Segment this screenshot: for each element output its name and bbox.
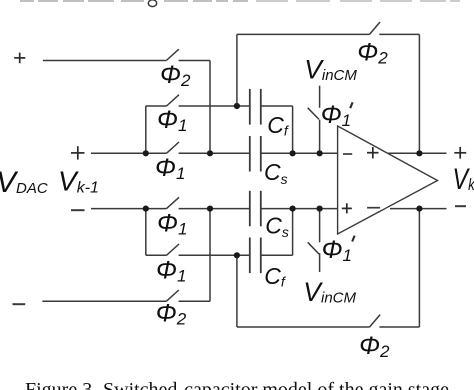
svg-text:Φ1: Φ1 <box>322 236 352 265</box>
op-amp input minus mark (top) <box>343 153 352 155</box>
svg-text:Cf: Cf <box>264 263 287 290</box>
wire top phi2 input left <box>43 60 166 62</box>
wire feedback top horizontal left <box>237 33 370 35</box>
wire bottom rail left <box>91 208 167 210</box>
switch PHI2 bottom input blade <box>166 290 179 301</box>
wire Vincm bottom lead <box>319 253 321 272</box>
wire phi1' bottom from rail <box>319 209 321 243</box>
wire feedback top right vertical <box>418 34 420 153</box>
wire vertical phi2 branch to top rail <box>209 61 211 154</box>
svg-text:VDAC: VDAC <box>0 166 48 199</box>
svg-text:Φ2: Φ2 <box>156 300 187 329</box>
wire phi1' top to rail <box>319 120 321 154</box>
svg-text:VinCM: VinCM <box>303 277 356 307</box>
svg-text:Cs: Cs <box>264 159 288 187</box>
capacitor Cs top plates <box>250 136 261 172</box>
switch PHI1' bottom blade <box>308 242 319 254</box>
svg-text:Switched-capacitor model of th: Switched-capacitor model of the gain sta… <box>103 379 449 390</box>
wire phi1 upper branch left <box>146 105 167 107</box>
wire Cf top branch down to rail <box>292 106 294 153</box>
caption Figure 3 (clipped at bottom) <box>25 379 449 390</box>
op-amp U1 triangle <box>338 126 438 234</box>
wire phi1 lower branch right <box>179 254 249 256</box>
op-amp output minus mark inside (bottom) <box>367 207 380 209</box>
wire bottom phi2 input left <box>42 300 166 302</box>
switch PHI1 lower branch blade <box>167 244 180 255</box>
wire feedback bottom right vertical <box>418 209 420 327</box>
plus mark top output <box>454 147 466 159</box>
wire Cf bottom right lead <box>261 254 293 256</box>
wire bottom rail mid <box>179 208 249 210</box>
node bottom rail / phi1 riser <box>143 206 149 212</box>
wire phi1 lower branch left <box>146 254 167 256</box>
op-amp input plus mark (bottom) <box>342 203 352 213</box>
wire bottom output <box>390 208 447 210</box>
wire vertical phi1 upper branch riser <box>145 106 147 153</box>
node phi1 upper branch / feedback <box>234 103 240 109</box>
svg-text:VinCM: VinCM <box>304 55 357 85</box>
node bottom rail / Cf branch <box>290 206 296 212</box>
wire top rail right of Cs <box>262 152 338 154</box>
wire vertical phi1 lower branch riser <box>145 209 147 256</box>
node + terminal (VDAC top) <box>14 53 25 64</box>
node top rail / Cf branch <box>290 150 296 156</box>
wire top rail mid <box>179 152 249 154</box>
node top output / feedback <box>416 150 422 156</box>
svg-text:Φ1: Φ1 <box>157 210 187 239</box>
node bottom output / feedback <box>416 206 422 212</box>
svg-text:Φ1: Φ1 <box>157 106 187 135</box>
wire Cf bottom branch up to rail <box>292 209 294 256</box>
wire Vincm top lead <box>319 86 321 108</box>
minus terminal (Vk-1 bottom) <box>71 209 85 211</box>
switch PHI1 upper branch blade <box>167 95 180 106</box>
svg-text:Cs: Cs <box>265 213 289 241</box>
svg-text:Φ1: Φ1 <box>321 101 351 130</box>
op-amp output plus mark inside (top) <box>367 147 379 158</box>
capacitor Cs bottom plates <box>250 191 261 227</box>
node top rail / phi1' <box>317 150 323 156</box>
capacitor Cf bottom plates <box>250 238 261 274</box>
node bottom rail / phi2 branch <box>207 206 213 212</box>
svg-text:Figure 3.: Figure 3. <box>25 379 97 390</box>
wire feedback bottom horizontal left <box>237 326 370 328</box>
descender g fragment of cut-off top text <box>148 0 156 7</box>
node top rail / phi1 riser <box>143 150 149 156</box>
switch PHI1 bottom rail blade <box>167 197 180 208</box>
node top rail / phi2 branch <box>207 150 213 156</box>
wire feedback top horizontal right <box>379 33 419 35</box>
wire feedback bottom left vertical <box>236 255 238 327</box>
svg-text:Φ2: Φ2 <box>160 61 191 90</box>
wire top phi2 input right <box>179 60 210 62</box>
minus terminal (VDAC bottom) <box>13 303 26 305</box>
node phi1 lower branch / feedback <box>234 252 240 258</box>
junction dots <box>143 103 423 259</box>
wire Cf top right lead <box>261 105 293 107</box>
wire phi1 upper branch right <box>179 105 249 107</box>
switch PHI2 top input blade <box>166 49 179 60</box>
wire top output <box>388 152 447 154</box>
svg-text:Vk: Vk <box>453 162 474 195</box>
svg-text:Vk-1: Vk-1 <box>58 166 99 197</box>
switch PHI1' top blade <box>308 108 319 120</box>
node + terminal (Vk-1 top) <box>71 146 85 159</box>
wire bottom phi2 input right <box>179 300 210 302</box>
node bottom rail / phi1' <box>317 206 323 212</box>
wire feedback bottom horizontal right <box>379 326 419 328</box>
switch PHI1 top rail blade <box>167 142 180 153</box>
svg-text:Φ1: Φ1 <box>155 154 185 183</box>
svg-text:Cf: Cf <box>267 112 290 139</box>
switch PHI2 top feedback blade <box>370 22 381 34</box>
svg-text:Φ2: Φ2 <box>359 332 390 361</box>
wire top rail left <box>91 152 167 154</box>
wire feedback top left vertical <box>236 34 238 106</box>
top cut-off text line fragments <box>20 0 460 2</box>
minus mark bottom output <box>455 205 466 207</box>
svg-text:Φ1: Φ1 <box>156 257 186 286</box>
switch PHI2 bottom feedback blade <box>370 315 381 327</box>
svg-text:Φ2: Φ2 <box>357 39 388 68</box>
capacitor Cf top plates <box>250 89 261 125</box>
wire vertical phi2 bottom branch to rail <box>209 209 211 302</box>
wire bottom rail right of Cs <box>262 208 338 210</box>
